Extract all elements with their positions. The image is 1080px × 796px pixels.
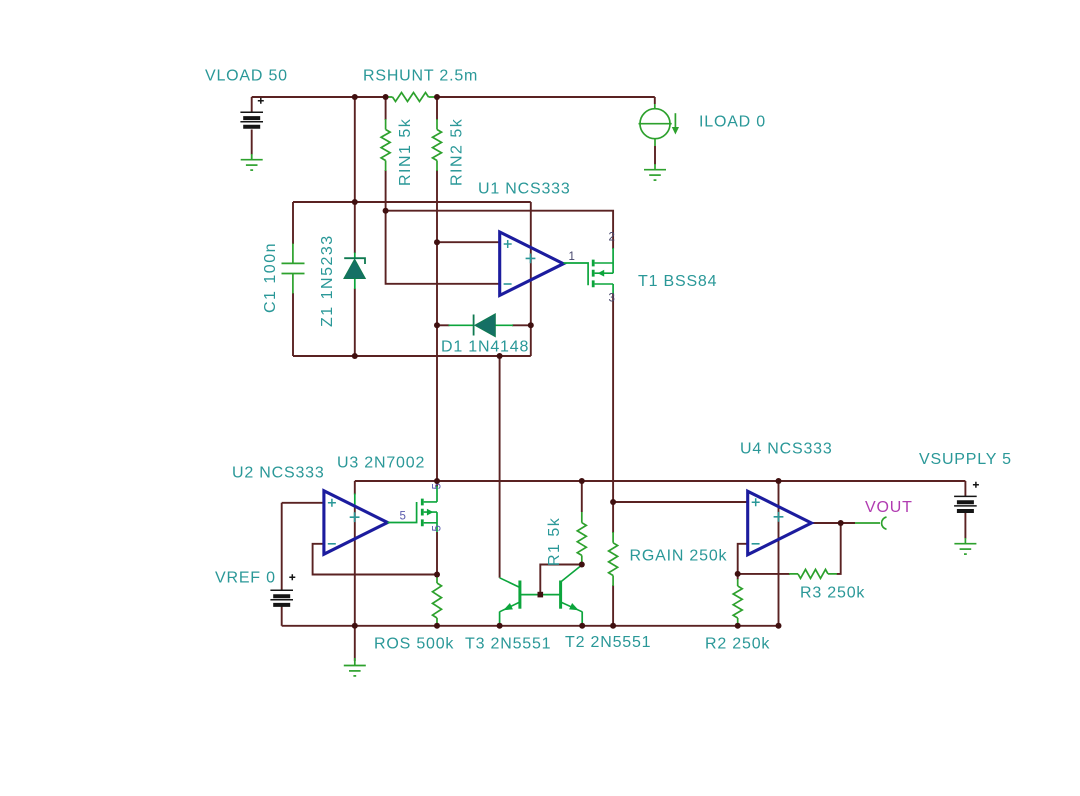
svg-text:VLOAD 50: VLOAD 50 bbox=[205, 68, 288, 85]
resistor R1 leads bbox=[581, 512, 583, 565]
wire RIN2 down to +5 rail bbox=[436, 170, 438, 481]
junction U3 source / ROS / feedback bbox=[434, 572, 440, 578]
svg-text:U1 NCS333: U1 NCS333 bbox=[478, 181, 571, 198]
svg-text:RGAIN 250k: RGAIN 250k bbox=[630, 548, 728, 565]
wire R2 top lead bbox=[737, 574, 739, 580]
op-amp U4 minus mark bbox=[752, 543, 760, 545]
transistor T3 2N5551 bbox=[500, 578, 520, 626]
svg-text:3: 3 bbox=[609, 293, 615, 305]
wire RGAIN node to U4 plus input bbox=[613, 501, 748, 503]
wire D1 right node line bbox=[512, 324, 531, 326]
svg-text:5: 5 bbox=[400, 511, 406, 523]
junction RGAIN / U4 plus line bbox=[610, 499, 616, 505]
diode D1 1N4148 bbox=[449, 314, 514, 337]
wire ground symbol stem bbox=[354, 626, 356, 661]
transistor T2 2N5551 bbox=[561, 565, 583, 626]
svg-text:RIN1 5k: RIN1 5k bbox=[397, 118, 414, 186]
ground symbol main rail bbox=[344, 666, 366, 676]
op-amp U1 minus mark bbox=[504, 283, 512, 285]
plus sign VLOAD bbox=[258, 98, 264, 104]
wire R1 top lead bbox=[581, 481, 583, 512]
junction ground rail / U4 power end bbox=[776, 623, 782, 629]
battery VLOAD bbox=[240, 112, 263, 127]
junction U4 minus / R2 / R3 bbox=[735, 571, 741, 577]
op-amp U4 power plus mark bbox=[774, 512, 784, 522]
wire box right edge / U1 power bbox=[530, 202, 532, 356]
wire mirror base link up bbox=[540, 565, 582, 595]
junction mirror bases bbox=[538, 592, 544, 598]
junction top rail / RIN1 bbox=[383, 94, 389, 100]
resistor ROS bbox=[433, 583, 442, 618]
junction box bottom / Z1 bbox=[352, 353, 358, 359]
resistor R3 bbox=[798, 569, 828, 578]
battery VSUPPLY bbox=[954, 496, 977, 511]
ground symbol VLOAD bbox=[241, 160, 263, 170]
resistor RGAIN leads bbox=[612, 532, 614, 586]
wire ILOAD source bottom bbox=[654, 146, 656, 165]
resistor RIN1 bbox=[381, 130, 390, 161]
resistor RIN2 leads bbox=[436, 119, 438, 171]
wire U3 drain from rail bbox=[436, 481, 438, 487]
junction +5 rail / U3 drain bbox=[434, 478, 440, 484]
ground under VLOAD bbox=[251, 154, 253, 160]
junction VOUT / R3 bbox=[838, 520, 844, 526]
wire box bottom edge bbox=[293, 355, 531, 357]
svg-text:C1 100n: C1 100n bbox=[262, 242, 279, 313]
wire VREF battery top stub bbox=[281, 503, 283, 590]
op-amp U4 plus mark bbox=[752, 498, 760, 506]
op-amp U1 plus mark bbox=[504, 240, 512, 248]
svg-text:1: 1 bbox=[569, 251, 575, 263]
resistor RSHUNT leads bbox=[386, 96, 437, 98]
svg-text:Z1 1N5233: Z1 1N5233 bbox=[319, 234, 336, 327]
junction box top / Z1 bbox=[352, 199, 358, 205]
junction top rail / box branch bbox=[352, 94, 358, 100]
wire U1 minus input feedback bbox=[386, 211, 500, 284]
wire T1 drain down bbox=[612, 294, 614, 534]
wire top rail RSHUNT to ILOAD bbox=[437, 96, 655, 98]
svg-text:R1 5k: R1 5k bbox=[546, 517, 563, 566]
wire Z1 branch lower bbox=[354, 289, 356, 357]
junction ground rail / T2 emitter bbox=[579, 623, 585, 629]
junction ground rail / RGAIN bbox=[610, 623, 616, 629]
resistor R1 bbox=[577, 523, 586, 556]
svg-text:T3 2N5551: T3 2N5551 bbox=[465, 636, 551, 653]
junction R1 / T2 collector bbox=[579, 562, 585, 568]
wire RIN1 bottom lead bbox=[385, 170, 387, 211]
wire RGAIN bottom to ground rail bbox=[612, 585, 614, 626]
wire U2 plus input bbox=[282, 502, 324, 504]
wire VOUT line bbox=[811, 522, 855, 524]
op-amp U1 bbox=[500, 232, 564, 295]
wire mirror base link bbox=[520, 594, 561, 596]
ground stub under ILOAD bbox=[654, 164, 656, 170]
wire VSUPPLY battery top stub bbox=[964, 481, 966, 496]
svg-text:RSHUNT 2.5m: RSHUNT 2.5m bbox=[363, 68, 478, 85]
resistor RIN1 leads bbox=[385, 119, 387, 171]
wire +5 rail bbox=[355, 480, 966, 482]
wire U2 power vertical upper bbox=[354, 481, 356, 495]
ground symbol ILOAD bbox=[644, 170, 666, 180]
svg-text:R3 250k: R3 250k bbox=[800, 585, 865, 602]
svg-text:VOUT: VOUT bbox=[865, 499, 913, 516]
resistor RGAIN bbox=[609, 543, 618, 576]
junction +5 rail / U4 power bbox=[776, 478, 782, 484]
junction RIN2 / U1 plus bbox=[434, 239, 440, 245]
wire U1 plus input bbox=[437, 241, 500, 243]
plus sign VREF bbox=[289, 574, 295, 580]
resistor RIN2 bbox=[433, 130, 442, 161]
junction inner edge / RIN1 bbox=[383, 208, 389, 214]
wire U2 power vertical lower bbox=[354, 507, 356, 626]
svg-text:VSUPPLY 5: VSUPPLY 5 bbox=[919, 451, 1012, 468]
wire ground rail bbox=[282, 625, 779, 627]
resistor R2 bbox=[733, 586, 742, 618]
junction D1 right node bbox=[528, 322, 534, 328]
wire RIN2 top lead bbox=[436, 97, 438, 120]
op-amp U2 minus mark bbox=[328, 543, 336, 545]
wire R3 right corner to VOUT bbox=[837, 523, 841, 574]
op-amp U2 power plus mark bbox=[350, 512, 360, 522]
svg-text:U4 NCS333: U4 NCS333 bbox=[740, 441, 833, 458]
wire node VLOAD down to box top bbox=[354, 97, 356, 202]
wire ILOAD top stub bbox=[654, 97, 656, 104]
wire inner edge to T1 source bbox=[386, 211, 613, 249]
wire box left edge lower (C1 bottom) bbox=[292, 293, 294, 356]
junction top rail / RIN2 bbox=[434, 94, 440, 100]
wire U2 minus feedback bbox=[313, 544, 437, 575]
svg-text:R2 250k: R2 250k bbox=[705, 636, 770, 653]
svg-text:U2 NCS333: U2 NCS333 bbox=[232, 465, 325, 482]
svg-text:ROS 500k: ROS 500k bbox=[374, 636, 454, 653]
battery VREF bbox=[270, 590, 293, 605]
svg-text:D1 1N4148: D1 1N4148 bbox=[441, 339, 529, 356]
svg-text:5: 5 bbox=[432, 525, 444, 531]
svg-text:U3 2N7002: U3 2N7002 bbox=[337, 455, 425, 472]
wire box top edge bbox=[293, 201, 531, 203]
junction +5 rail / R1 bbox=[579, 478, 585, 484]
wire VLOAD battery to ground bbox=[251, 130, 253, 155]
capacitor C1 bbox=[282, 244, 305, 294]
op-amp U2 bbox=[324, 491, 388, 554]
wire R2 bottom lead bbox=[737, 624, 739, 626]
resistor RSHUNT bbox=[393, 93, 429, 102]
junction ground rail / T3 emitter bbox=[497, 623, 503, 629]
svg-text:T2 2N5551: T2 2N5551 bbox=[565, 634, 651, 651]
svg-text:T1 BSS84: T1 BSS84 bbox=[638, 273, 717, 290]
op-amp U2 plus mark bbox=[328, 499, 336, 507]
resistor R3 leads bbox=[789, 573, 837, 575]
op-amp U4 bbox=[748, 491, 812, 554]
ground symbol VSUPPLY bbox=[954, 544, 976, 554]
svg-text:VREF 0: VREF 0 bbox=[215, 570, 276, 587]
op-amp U2 V+ pin stub bbox=[354, 494, 356, 508]
wire box left edge upper (C1 top) bbox=[292, 202, 294, 244]
svg-text:5: 5 bbox=[432, 483, 444, 489]
junction box bottom / T3 branch bbox=[497, 353, 503, 359]
junction ground rail / R2 bbox=[735, 623, 741, 629]
svg-text:RIN2 5k: RIN2 5k bbox=[449, 118, 466, 186]
wire box bottom to T3 collector bbox=[499, 356, 501, 578]
wire VLOAD battery top stub bbox=[251, 97, 253, 113]
junction ground rail / U2 power bbox=[352, 623, 358, 629]
current source ILOAD bbox=[639, 104, 680, 146]
wire VSUPPLY battery to ground bbox=[964, 513, 966, 539]
wire top rail VLOAD to RSHUNT bbox=[252, 96, 387, 98]
node VOUT terminal bbox=[855, 517, 887, 529]
wire R3 left lead node bbox=[738, 573, 790, 575]
resistor R2 leads bbox=[737, 579, 739, 625]
wire RIN1 top lead bbox=[385, 97, 387, 120]
wire U4 power vertical bbox=[778, 481, 780, 626]
plus sign VSUPPLY bbox=[973, 482, 979, 488]
ground stub under VSUPPLY bbox=[964, 538, 966, 544]
junction ground rail / ROS bbox=[434, 623, 440, 629]
zener diode Z1 bbox=[344, 253, 365, 290]
svg-text:2: 2 bbox=[609, 232, 615, 244]
svg-text:ILOAD 0: ILOAD 0 bbox=[699, 114, 766, 131]
wire Z1 branch upper bbox=[354, 202, 356, 253]
wire VREF battery to ground rail bbox=[281, 606, 283, 626]
transistor T1 BSS84 bbox=[564, 248, 614, 294]
op-amp U1 power plus mark bbox=[526, 254, 536, 264]
junction D1 left node bbox=[434, 322, 440, 328]
ground stem green tip bbox=[354, 658, 356, 666]
transistor U3 2N7002 bbox=[388, 486, 438, 532]
resistor ROS leads bbox=[436, 575, 438, 626]
wire D1 left node line bbox=[437, 324, 450, 326]
wire U4 minus input bbox=[738, 544, 748, 574]
wire U3 source down bbox=[436, 532, 438, 575]
